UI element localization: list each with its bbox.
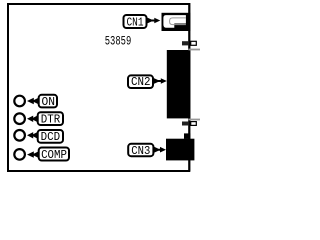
svg-text:CN3: CN3: [131, 144, 150, 158]
svg-text:CN2: CN2: [131, 75, 151, 89]
svg-text:DTR: DTR: [41, 112, 61, 126]
svg-text:ON: ON: [42, 95, 56, 109]
svg-text:53859: 53859: [105, 34, 132, 49]
svg-text:DCD: DCD: [41, 130, 61, 144]
svg-text:CN1: CN1: [127, 15, 144, 29]
svg-text:COMP: COMP: [41, 148, 67, 162]
